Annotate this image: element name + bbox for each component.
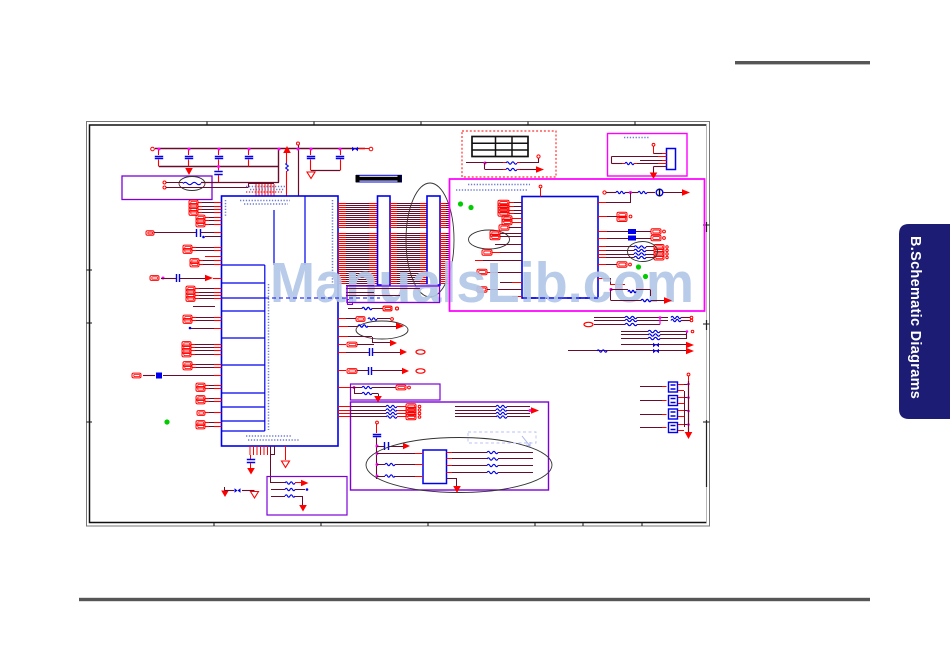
- resistor R16 row: [610, 288, 613, 291]
- connector J9 pins: [183, 362, 192, 367]
- wire drops to option box: [270, 446, 272, 483]
- U2 right lower bends: [598, 278, 610, 280]
- wire second net: [163, 186, 166, 189]
- capacitor C10 row with pad: [338, 352, 346, 354]
- resistor R10 with arrow: [271, 482, 285, 484]
- crystal Y3: [640, 414, 662, 416]
- crystal bank power stub: [687, 373, 690, 376]
- IC U1 pin labels top: [240, 200, 290, 202]
- resistor R5 row with arrow: [338, 326, 348, 328]
- wire bundle U1 to RN1: [338, 204, 378, 284]
- resistor R12 to ground: [271, 496, 285, 498]
- dnp dashed box: [468, 432, 536, 443]
- wire vertical net: [298, 145, 300, 196]
- ferrite bead FB1: [352, 147, 355, 152]
- connector J13 pin: [197, 411, 205, 416]
- resistor R11: [271, 489, 285, 491]
- branch to U2: [630, 193, 632, 204]
- clock out resistor chain: [603, 191, 606, 194]
- option box (purple): [351, 384, 441, 400]
- clock section box frame over (magenta): [450, 179, 705, 311]
- resistor R14 with arrow: [484, 163, 486, 170]
- revision table: [472, 137, 528, 157]
- supply branch with capacitor C12: [376, 421, 379, 424]
- connector J5 with capacitor C9: [150, 276, 159, 281]
- resistor R9 into U3: [377, 476, 385, 478]
- capacitor C4: [248, 149, 250, 155]
- U2 left connector pins A: [498, 200, 509, 206]
- IC U1 body: [222, 196, 339, 446]
- IC U1 pin name column (dotted): [268, 284, 270, 430]
- page bottom rule: [79, 598, 870, 601]
- resistor R3 row over: [348, 308, 362, 310]
- right border zone segments: [706, 222, 708, 487]
- resistor network RN2: [427, 196, 440, 285]
- connector J7 pins: [183, 315, 192, 320]
- node VCC bus terminal: [151, 147, 155, 151]
- IC U1 config dashes: [265, 297, 380, 299]
- U2 wire G: [475, 260, 483, 262]
- wire return bus: [159, 166, 279, 168]
- ground open arrow: [307, 172, 315, 179]
- crystal bank ground: [685, 432, 693, 439]
- U3 output rows: [447, 452, 453, 454]
- crystal box label: [624, 137, 650, 139]
- resistor R17 row with arrow: [610, 290, 612, 301]
- resistor R7 to ground: [354, 388, 356, 394]
- wire bundle RN2 out: [440, 204, 450, 284]
- connector J16 body: [667, 149, 676, 170]
- U2 right row 3 with bead: [598, 238, 607, 240]
- section notes (blue): [468, 184, 530, 186]
- crystal bank bus: [688, 381, 690, 432]
- capacitor C2: [188, 149, 190, 155]
- U2 left connector pin C: [499, 225, 509, 231]
- resistor R4 row: [338, 318, 346, 320]
- IC U1 pin labels bottom: [246, 435, 292, 437]
- wire bend row: [338, 336, 348, 338]
- termination box (purple): [267, 477, 347, 516]
- U2 left connector pins B: [502, 216, 512, 222]
- open ground: [285, 446, 287, 460]
- U2 left connector pin J: [477, 287, 487, 293]
- resistor network RN1: [378, 196, 391, 285]
- wire pwr stub: [652, 143, 655, 146]
- connector J11 pins: [196, 383, 205, 388]
- IC U2 body: [522, 197, 598, 299]
- U2 bottom edge dashes over: [522, 297, 598, 299]
- capacitor C7: [340, 149, 342, 155]
- wire bundle RN1 to RN2: [390, 204, 427, 284]
- U2 wire I: [500, 282, 512, 284]
- clock section box (magenta): [450, 179, 705, 311]
- schematic sheet inner border: [90, 125, 707, 523]
- capacitor C3: [218, 149, 220, 155]
- wire loop top: [612, 156, 659, 158]
- quad ellipse: [628, 242, 658, 262]
- crystal Y2: [640, 400, 662, 402]
- resistor R5 row over: [348, 326, 358, 328]
- inductor bar L1: [357, 175, 402, 182]
- capacitor C13 branch: [377, 446, 384, 448]
- ground arrow: [185, 168, 193, 175]
- wire mid: [640, 160, 662, 162]
- test points green: [458, 201, 463, 206]
- wire cap return loop: [311, 170, 340, 172]
- IC U1 pin label columns (dotted): [225, 200, 227, 216]
- wire bus corner to IC: [278, 149, 280, 183]
- crystal Y4: [640, 427, 662, 429]
- U2 right row 1: [598, 216, 607, 218]
- connector J6 pins: [186, 286, 195, 291]
- connector J12 pins: [196, 396, 205, 401]
- schematic sheet outer border: [87, 122, 710, 527]
- IC U3 body: [423, 450, 447, 484]
- wire top power bus: [155, 148, 365, 150]
- power arrow: [531, 407, 539, 413]
- interface box (purple): [351, 402, 549, 490]
- connector J10 with ferrite bead FB2: [132, 373, 141, 378]
- wire pin header run: [248, 183, 274, 185]
- connector J4 pins: [190, 259, 199, 264]
- crystal Y1: [640, 386, 662, 388]
- pin number labels: [246, 191, 282, 193]
- grouping ellipse left: [469, 230, 510, 249]
- connector J3 pins: [183, 245, 192, 250]
- wire U3 in 1: [377, 453, 415, 455]
- connector J1 pins: [189, 200, 198, 205]
- capacitor C6: [310, 149, 312, 155]
- wire tail rows over: [346, 285, 374, 287]
- connector J8 pins: [182, 342, 191, 347]
- U2 right row 2 with bead: [598, 231, 607, 233]
- revision table box (red dashed): [462, 131, 556, 177]
- U2 right quad rows with resistors: [598, 246, 606, 248]
- wire to pad: [359, 148, 369, 150]
- IC U1 top pin stubs: [256, 184, 274, 196]
- wire stub2: [205, 256, 222, 258]
- U2 left connector pin H: [477, 269, 487, 275]
- capacitor C5: [218, 167, 220, 171]
- ellipse marker: [356, 321, 408, 339]
- U2 left connector pins D: [490, 231, 500, 237]
- crystal box (magenta): [608, 134, 688, 177]
- signal ellipse: [366, 438, 552, 493]
- resistor pack rows to connector: [338, 406, 350, 408]
- capacitor C1: [158, 149, 160, 155]
- side tab B.Schematic Diagrams: [899, 224, 950, 419]
- group B triple resistor rows: [621, 331, 648, 333]
- resistor R3 row: [348, 308, 362, 310]
- page top-right rule: [735, 61, 870, 64]
- U2 lower right rows over: [610, 288, 613, 291]
- wire tail rows: [346, 285, 374, 287]
- U2 right row 4: [598, 264, 606, 266]
- test points green 2: [636, 264, 641, 269]
- border zone ticks: [87, 122, 710, 527]
- resistor R15: [612, 163, 623, 165]
- resistor R2 in ellipse: [179, 177, 205, 191]
- capacitor C11 row with pad: [338, 370, 346, 372]
- connector J14 pins: [196, 421, 205, 426]
- IC U1 config dashes over: [265, 297, 380, 299]
- wire stub: [205, 236, 222, 238]
- U3 ground: [447, 478, 458, 480]
- group C rows with beads and arrows: [621, 344, 686, 346]
- resistor R13: [466, 162, 485, 164]
- resistor R6 with pad: [338, 387, 350, 389]
- IC U1 internal dividers: [222, 196, 306, 431]
- resistor pack rows right: [455, 406, 496, 408]
- routing ellipse: [406, 183, 454, 297]
- net label box (purple): [347, 286, 440, 303]
- svg-text:B.Schematic Diagrams: B.Schematic Diagrams: [907, 236, 923, 399]
- U2 left connector pin F: [482, 250, 492, 256]
- wire stub3: [193, 306, 215, 308]
- connector J2 pins: [196, 215, 205, 220]
- connector row J15: [338, 344, 346, 346]
- label box (purple): [122, 176, 212, 200]
- oscillator symbol: [656, 189, 663, 196]
- U2 wire E: [495, 244, 522, 246]
- resistor R8 into U3: [377, 464, 385, 466]
- wire with node dot: [189, 327, 192, 330]
- IC U1 bottom pin stubs: [250, 446, 268, 455]
- U2 wire K: [512, 296, 522, 298]
- wire into R2: [163, 181, 166, 184]
- U2 top stub: [539, 185, 542, 188]
- ground cluster with bead FB3: [221, 491, 229, 498]
- wire long net with capacitor C8: [146, 231, 154, 236]
- test point (green): [164, 419, 169, 424]
- resistor R1 vertical with power arrow: [283, 146, 291, 153]
- ground J16: [654, 166, 667, 168]
- net label box over (purple): [347, 286, 440, 303]
- capacitor C14 to ground: [250, 455, 252, 459]
- svg-text:ManualsLib.com: ManualsLib.com: [270, 251, 694, 315]
- group A triple resistor rows: [594, 317, 625, 319]
